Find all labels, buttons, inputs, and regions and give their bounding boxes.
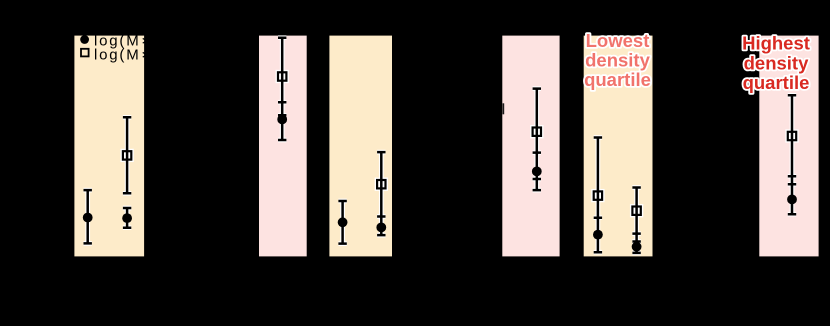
- svg-text:density: density: [585, 50, 650, 71]
- marker open square band2: [278, 72, 286, 80]
- errorbar group band5 right: [632, 188, 640, 253]
- marker filled circle band3 left: [338, 217, 348, 227]
- tick label fragment at band 4 left edge: [503, 103, 505, 114]
- svg-text:density: density: [744, 52, 809, 73]
- marker filled circle band4: [532, 167, 542, 177]
- errorbar group band1 right: [123, 117, 131, 227]
- band 1 peach quartile span: [74, 36, 144, 257]
- errorbar group band5 left: [594, 138, 602, 253]
- marker filled circle band6: [787, 195, 797, 205]
- marker open square band5 right: [632, 207, 640, 215]
- label Highest density quartile: [742, 33, 810, 93]
- legend marker open square: [81, 49, 89, 57]
- errorbar group band6: [788, 95, 796, 214]
- marker open square band6: [788, 132, 796, 140]
- marker filled circle band5 left: [593, 230, 603, 240]
- svg-text:quartile: quartile: [743, 72, 810, 93]
- marker filled circle band1 left: [83, 213, 93, 223]
- legend text line 2: [94, 47, 221, 64]
- errorbar group band3 left: [338, 201, 346, 244]
- errorbar group band1 left: [84, 190, 92, 243]
- marker filled circle band2: [277, 115, 287, 125]
- legend text line 1: [94, 33, 221, 50]
- marker open square band1 right: [123, 151, 131, 159]
- errorbar group band4: [533, 89, 541, 191]
- svg-text:log(M∗) > 10.2: log(M∗) > 10.2: [94, 47, 221, 64]
- errorbar group band3 right: [377, 152, 385, 235]
- band 4 pink quartile span: [502, 36, 559, 257]
- label Lowest density quartile: [584, 30, 651, 90]
- marker filled circle band1 right: [122, 213, 132, 223]
- band 3 peach quartile span: [329, 36, 392, 257]
- errorbar group band2: [278, 38, 286, 140]
- marker open square band5 left: [594, 191, 602, 199]
- band 2 pink quartile span: [259, 36, 307, 257]
- marker filled circle band5 right: [632, 242, 642, 252]
- svg-text:Highest: Highest: [742, 33, 810, 54]
- legend marker circle: [80, 35, 89, 44]
- marker open square band3 right: [377, 180, 385, 188]
- svg-text:quartile: quartile: [584, 69, 651, 90]
- band 5 peach quartile span: [584, 36, 653, 257]
- band 6 pink quartile span: [759, 36, 818, 257]
- marker open square band4: [533, 128, 541, 136]
- svg-text:Lowest: Lowest: [586, 30, 650, 51]
- marker filled circle band3 right: [376, 223, 386, 233]
